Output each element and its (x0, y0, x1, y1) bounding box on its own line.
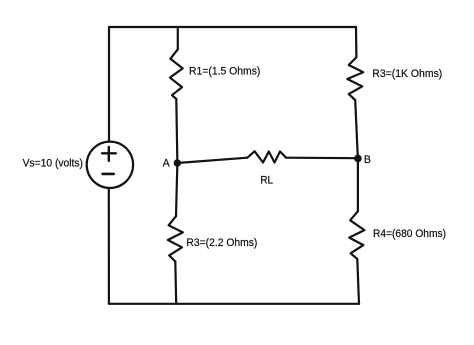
svg-text:R4=(680 Ohms): R4=(680 Ohms) (373, 228, 446, 240)
wire: middle branch top lead (top bus to R1) (177, 27, 179, 49)
resistor R3 (1K Ohms) (347, 57, 363, 100)
resistor R1 (170, 49, 183, 99)
node A junction dot (174, 159, 181, 166)
svg-text:A: A (163, 158, 171, 170)
svg-text:RL: RL (260, 174, 273, 186)
wire: node A to RL (177, 158, 247, 163)
voltage source Vs (circle with polarity marks) (87, 142, 133, 188)
wire: top bus from left branch to right branch (109, 26, 356, 28)
wire: bottom bus (109, 303, 359, 305)
svg-text:R1=(1.5 Ohms): R1=(1.5 Ohms) (189, 66, 260, 78)
svg-text:B: B (364, 154, 371, 166)
svg-text:Vs=10 (volts): Vs=10 (volts) (23, 157, 83, 169)
wire: left branch upper, top bus down to voltage source (108, 27, 110, 142)
resistor R4 (349, 211, 364, 259)
wire: node A down to R3 (2.2) (176, 166, 177, 216)
wire: R3 (2.2) to bottom bus (174, 262, 177, 304)
wire: RL to node B (286, 157, 358, 160)
wire: R1 to node A (176, 99, 177, 160)
svg-text:R3=(1K Ohms): R3=(1K Ohms) (372, 68, 442, 80)
wire: left branch lower, voltage source down to bottom bus (108, 188, 110, 304)
node B junction dot (354, 155, 362, 163)
resistor R3 (2.2 Ohms) (168, 216, 183, 261)
svg-text:R3=(2.2 Ohms): R3=(2.2 Ohms) (186, 237, 257, 249)
wire: node B down to R4 (357, 162, 359, 211)
wire: R4 to bottom bus (357, 259, 359, 304)
resistor RL (247, 151, 286, 162)
wire: right branch top lead (top bus to R3 1K) (355, 27, 358, 57)
wire: R3 (1K) to node B (355, 100, 358, 155)
